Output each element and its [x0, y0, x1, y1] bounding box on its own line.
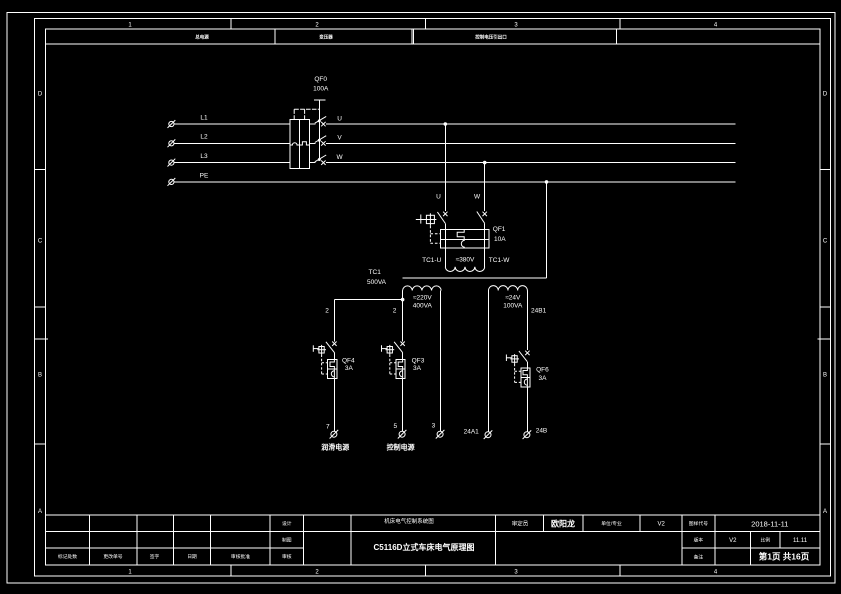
svg-text:V: V: [337, 135, 342, 142]
transformer TC1 primary winding: [445, 267, 484, 272]
svg-text:W: W: [337, 154, 344, 161]
svg-text:控制电压引出口: 控制电压引出口: [475, 34, 507, 41]
wire L2: [174, 142, 290, 144]
wire QF4 to terminal 7: [333, 379, 335, 432]
transformer TC1 220V secondary winding: [403, 286, 442, 291]
svg-text:3A: 3A: [413, 365, 422, 372]
svg-text:制图: 制图: [282, 537, 292, 544]
breaker QF4 magnetic element: [331, 369, 334, 378]
terminal 7: [330, 430, 339, 439]
breaker QF1 element box: [441, 230, 490, 248]
breaker QF0 trip elements: [290, 142, 309, 145]
svg-text:TC1: TC1: [369, 269, 382, 276]
svg-text:V2: V2: [658, 522, 666, 528]
svg-text:C5116D立式车床电气原理图: C5116D立式车床电气原理图: [374, 542, 475, 552]
svg-text:10A: 10A: [494, 236, 506, 243]
wire QF3 lower: [402, 353, 404, 360]
terminal 24B: [523, 430, 532, 439]
breaker QF3 contact: [394, 342, 405, 353]
wire PE drop to transformer shield: [546, 182, 548, 278]
svg-text:QF3: QF3: [412, 357, 425, 364]
breaker QF4 trip link: [322, 355, 328, 374]
transformer TC1 core bar: [403, 277, 547, 279]
svg-text:润滑电源: 润滑电源: [321, 442, 349, 451]
breaker QF6 element box: [521, 368, 530, 387]
breaker QF3 trip link: [390, 355, 396, 374]
svg-text:L2: L2: [200, 134, 208, 141]
terminal L1 input: [168, 120, 176, 128]
wire QF1 U through: [444, 223, 446, 266]
wire V: [326, 142, 735, 144]
svg-text:设计: 设计: [282, 520, 292, 527]
svg-text:机床电气控制系统图: 机床电气控制系统图: [384, 517, 434, 525]
svg-text:B: B: [823, 373, 827, 379]
wire 220V left terminal: [402, 291, 404, 300]
svg-text:标记处数: 标记处数: [58, 553, 77, 560]
svg-text:100VA: 100VA: [503, 303, 523, 310]
breaker QF1 pole W contact: [477, 212, 487, 224]
breaker QF3 thermal element: [398, 360, 402, 370]
svg-text:图样代号: 图样代号: [689, 520, 708, 527]
breaker QF0 body: [290, 120, 309, 169]
wire U: [326, 123, 735, 125]
breaker QF1 pole U contact: [437, 212, 447, 224]
breaker QF3 magnetic element: [400, 369, 403, 378]
svg-text:≈380V: ≈380V: [456, 257, 475, 264]
node U tap: [444, 122, 448, 126]
wire 24V left to terminal 24A1: [488, 291, 490, 432]
breaker QF6 thermal element: [523, 368, 527, 377]
svg-text:QF4: QF4: [342, 357, 355, 364]
svg-text:A: A: [38, 509, 42, 515]
svg-text:≈220V: ≈220V: [413, 294, 432, 301]
wire QF3 to terminal 5: [402, 379, 404, 432]
svg-text:D: D: [38, 92, 43, 98]
svg-text:签字: 签字: [150, 553, 160, 560]
wire branch to QF4: [334, 299, 402, 301]
breaker QF0 pole L2 contact: [309, 136, 326, 146]
terminal L3 input: [168, 159, 176, 167]
breaker QF0 pole L1 contact: [309, 116, 326, 126]
svg-text:2: 2: [393, 308, 397, 315]
svg-text:≈24V: ≈24V: [505, 294, 521, 301]
svg-text:审定员: 审定员: [512, 519, 529, 527]
breaker QF1 trip link: [430, 226, 440, 244]
svg-text:QF1: QF1: [493, 226, 506, 233]
breaker QF0 terminal clamps: [294, 109, 320, 119]
transformer TC1 24V secondary winding: [489, 286, 528, 291]
node PE tap: [545, 180, 549, 184]
svg-text:变压器: 变压器: [319, 34, 333, 41]
terminal L2 input: [168, 139, 176, 147]
svg-text:比例: 比例: [760, 537, 770, 544]
wire PE: [174, 181, 735, 183]
svg-text:5: 5: [393, 423, 397, 430]
svg-text:QF0: QF0: [314, 76, 327, 83]
breaker QF0 operating bar: [314, 100, 326, 158]
breaker QF4 operator: [313, 345, 326, 355]
svg-text:审核: 审核: [282, 553, 292, 560]
svg-text:PE: PE: [200, 172, 209, 179]
breaker QF1 thermal element: [457, 230, 464, 240]
wire QF6 to terminal 24B: [526, 387, 528, 432]
svg-text:日期: 日期: [187, 554, 197, 560]
svg-text:B: B: [38, 373, 42, 379]
breaker QF4 contact: [326, 342, 337, 353]
svg-text:7: 7: [326, 424, 330, 431]
svg-text:版本: 版本: [694, 537, 704, 544]
terminal 24A1: [484, 430, 493, 439]
svg-text:单位/专业: 单位/专业: [601, 520, 622, 527]
breaker QF3 element box: [396, 360, 405, 379]
svg-text:400VA: 400VA: [413, 303, 433, 310]
breaker QF3 operator: [382, 345, 395, 355]
terminal 5: [398, 430, 407, 439]
top section band: [46, 29, 820, 44]
svg-text:3A: 3A: [539, 375, 548, 382]
svg-text:QF6: QF6: [536, 366, 549, 373]
svg-text:U: U: [337, 115, 342, 122]
svg-text:11.11: 11.11: [793, 538, 808, 544]
breaker QF4 thermal element: [330, 360, 334, 370]
svg-text:100A: 100A: [313, 86, 329, 93]
svg-text:3: 3: [432, 423, 436, 430]
breaker QF1 operator: [416, 213, 437, 225]
wire QF1 W through: [484, 223, 486, 266]
wire L3: [174, 162, 290, 164]
svg-text:V2: V2: [729, 538, 737, 544]
svg-text:D: D: [823, 92, 828, 98]
svg-text:2018-11-11: 2018-11-11: [751, 519, 788, 528]
svg-text:更改单号: 更改单号: [103, 553, 122, 560]
breaker QF0 pole L3 contact: [309, 155, 326, 165]
svg-text:TC1-W: TC1-W: [489, 257, 510, 264]
svg-text:L1: L1: [200, 114, 208, 121]
node 2 junction: [401, 298, 405, 302]
wire QF6 lower: [526, 362, 528, 368]
breaker QF6 magnetic element: [524, 377, 527, 387]
breaker QF4 element box: [328, 360, 337, 379]
terminal PE input: [168, 178, 176, 186]
svg-text:24B: 24B: [536, 428, 548, 435]
wire W: [326, 162, 735, 164]
wire QF4 lower: [333, 353, 335, 360]
svg-text:控制电源: 控制电源: [387, 442, 415, 451]
breaker QF6 trip link: [515, 364, 521, 383]
svg-text:欧阳龙: 欧阳龙: [551, 519, 575, 529]
svg-text:U: U: [436, 194, 441, 201]
wire 220V right to terminal 3: [440, 291, 442, 432]
breaker QF1 magnetic element: [461, 240, 464, 247]
svg-text:2: 2: [325, 308, 329, 315]
svg-text:24A1: 24A1: [464, 429, 480, 436]
TITLE BLOCK: [46, 515, 820, 565]
svg-text:审核批准: 审核批准: [231, 553, 250, 560]
svg-text:3A: 3A: [345, 365, 354, 372]
wire QF6 upper: [526, 291, 528, 351]
svg-text:24B1: 24B1: [531, 307, 547, 314]
wire L1: [174, 123, 290, 125]
wire QF3 upper: [402, 300, 404, 342]
svg-text:L3: L3: [200, 153, 208, 160]
breaker QF6 operator: [506, 354, 519, 364]
wire W drop to QF1: [484, 163, 486, 212]
svg-text:第1页 共16页: 第1页 共16页: [759, 552, 810, 562]
svg-text:W: W: [474, 194, 481, 201]
svg-text:A: A: [823, 509, 827, 515]
wire QF4 upper: [333, 300, 335, 342]
breaker QF6 contact: [519, 351, 530, 362]
node W tap: [483, 161, 487, 165]
svg-text:TC1-U: TC1-U: [422, 257, 441, 264]
svg-text:总电源: 总电源: [195, 34, 209, 41]
svg-text:C: C: [823, 239, 828, 245]
terminal 3: [436, 430, 445, 439]
svg-text:C: C: [38, 239, 43, 245]
wire U drop to QF1: [444, 124, 446, 211]
svg-text:500VA: 500VA: [367, 279, 387, 286]
svg-text:备注: 备注: [694, 553, 704, 560]
